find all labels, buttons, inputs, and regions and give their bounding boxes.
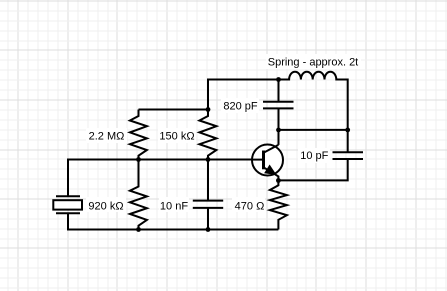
svg-text:920 kΩ: 920 kΩ (88, 201, 123, 213)
svg-text:150 kΩ: 150 kΩ (159, 131, 194, 143)
svg-text:10 pF: 10 pF (300, 150, 328, 162)
svg-text:2.2 MΩ: 2.2 MΩ (89, 131, 125, 143)
svg-text:10 nF: 10 nF (160, 201, 188, 213)
svg-text:820 pF: 820 pF (223, 100, 258, 112)
svg-text:470 Ω: 470 Ω (235, 201, 265, 213)
svg-text:Spring - approx. 2t: Spring - approx. 2t (268, 56, 359, 68)
